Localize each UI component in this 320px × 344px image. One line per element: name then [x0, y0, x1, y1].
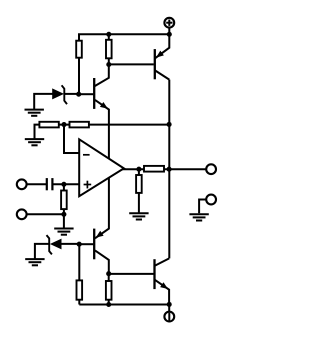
resistor R6: [136, 175, 142, 193]
wire: D2 anode to Q3 base node: [62, 243, 80, 245]
wire: capacitor to non-inverting input: [52, 183, 80, 185]
wire: Q4 emitter: [155, 280, 169, 305]
wire: R6 leads to ground: [138, 169, 140, 213]
zener diode D1: [52, 85, 67, 104]
wire: feedback node to inverting input: [64, 125, 80, 153]
node: R5 bottom: [61, 212, 66, 217]
wire: input terminal 1 to capacitor: [27, 183, 47, 185]
node: output / R6: [136, 167, 141, 172]
wire: bottom rail: [79, 304, 169, 306]
wire: D1 anode to ground: [34, 94, 52, 110]
node: input coupling: [61, 182, 66, 187]
node: R9 bottom rail: [106, 302, 111, 307]
op-amp minus label: [83, 154, 90, 156]
node: +V rail junction: [167, 32, 172, 37]
ground (D2): [25, 259, 44, 265]
transistor Q4 (NPN): [155, 259, 169, 289]
resistor R8: [77, 280, 83, 299]
capacitor C1: [47, 178, 53, 190]
wire: -V terminal lead: [168, 304, 170, 312]
wire: R5 vertical leads: [63, 184, 65, 214]
-V bar: [168, 313, 170, 321]
wire: Q1 collector: [95, 65, 109, 87]
wire: D2 cathode to ground: [35, 244, 49, 259]
op-amp plus label: [84, 181, 92, 189]
resistor R3: [39, 122, 58, 128]
terminal ground reference: [206, 195, 216, 205]
wire: Q2 collector diagonal: [155, 70, 169, 79]
transistor Q3 (PNP): [94, 229, 103, 260]
terminal input 1: [17, 179, 27, 189]
wire: Q4 base wire: [109, 273, 154, 275]
resistor R9: [106, 281, 112, 300]
+V plus sign: [166, 20, 172, 26]
wire: output row from op-amp tip to output terminal: [121, 168, 206, 170]
node: Q1 base: [76, 92, 81, 97]
resistor R1: [76, 41, 82, 58]
transistor Q1 (NPN): [94, 78, 108, 109]
ground (R5 node): [54, 229, 73, 235]
resistor R7: [144, 166, 164, 172]
wire: Q3 base node down through R8 to bottom rail: [78, 244, 80, 304]
wire: Q3 base: [79, 243, 93, 245]
resistor R4: [70, 122, 89, 128]
wire: input terminal 2: [27, 213, 64, 215]
node: divider to rail: [167, 122, 172, 127]
wire: R2 vertical leads: [108, 34, 110, 64]
wire: Q3 collector: [95, 250, 109, 273]
wire: Q4 collector diagonal: [155, 258, 169, 265]
wire: Q1 emitter down to Q3 emitter (passes behind op-amp): [95, 100, 109, 238]
wire: Q2 emitter from +V junction: [155, 34, 169, 58]
ground (ref terminal): [189, 214, 208, 220]
node: -V rail junction: [167, 302, 172, 307]
terminal +V supply: [164, 18, 174, 28]
wire: ground reference terminal: [199, 200, 206, 214]
resistor R2: [106, 40, 112, 59]
wire: D1 cathode to Q1 base node: [64, 93, 78, 95]
terminal input 2: [17, 209, 27, 219]
wire: Q2 base wire: [109, 63, 154, 65]
wire: top rail from R1 through +V junction: [79, 34, 169, 94]
node: Q4 base drive: [106, 271, 111, 276]
terminal output: [206, 164, 216, 174]
wire: R9 vertical leads: [108, 274, 110, 305]
wire: R5 node to ground: [63, 214, 65, 228]
ground (R6): [129, 213, 148, 219]
node: Q3 base: [77, 242, 82, 247]
zener diode D2: [47, 235, 62, 254]
transistor Q2 (PNP): [155, 49, 164, 79]
wire: right vertical rail (Q2 collector to Q4 collector): [168, 80, 170, 259]
resistor R5: [61, 191, 67, 210]
op-amp U1: [79, 139, 124, 196]
wire: Q1 base: [79, 93, 94, 95]
ground (divider): [25, 139, 44, 145]
node: output rail: [167, 167, 172, 172]
node: R2 bottom / Q1 collector: [106, 62, 111, 67]
node: divider tap: [61, 122, 66, 127]
wire: resistor divider row: [35, 125, 170, 139]
ground (D1): [25, 110, 44, 116]
terminal -V supply: [164, 312, 174, 322]
node: R2 top: [106, 32, 111, 37]
wire: +V terminal lead: [168, 27, 170, 34]
